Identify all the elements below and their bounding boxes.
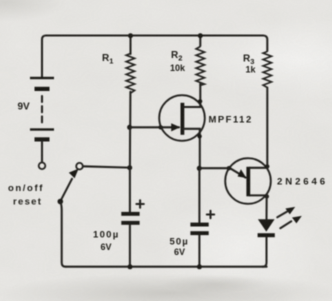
- LED D1 triangle: [258, 219, 275, 231]
- wire rail corner to R3: [263, 36, 267, 52]
- label on/off reset: [8, 183, 44, 208]
- dot source wire at circle: [197, 134, 201, 138]
- transistor Q2 2N2646 envelope: [225, 158, 271, 204]
- wire left vertical from rail to battery: [42, 36, 46, 78]
- wire Q1 drain stub: [183, 85, 200, 107]
- LED D1 cathode bar: [258, 233, 275, 237]
- capacitor C2 50u: [190, 223, 208, 235]
- junction dot R2 top: [198, 33, 203, 38]
- wire R2 bottom to drain: [199, 83, 201, 85]
- wire gate node to FET gate: [130, 126, 179, 128]
- emitter arrowhead: [238, 169, 247, 178]
- dot drain wire at circle: [198, 99, 202, 103]
- label 100u 6V: [93, 230, 120, 253]
- wire Q1 source stub: [183, 129, 200, 168]
- plus sign C2: [207, 211, 214, 218]
- label 50u 6V: [170, 237, 189, 258]
- junction dot gate node: [127, 125, 132, 130]
- dot base2 at circle: [265, 164, 269, 168]
- node A junction dot: [127, 165, 132, 170]
- transistor Q1 MPF112 envelope: [159, 95, 205, 141]
- LED light arrow 2: [280, 216, 302, 228]
- junction dot source node: [197, 166, 202, 171]
- capacitor C1 100u: [121, 212, 139, 225]
- wire rail to R2: [199, 36, 201, 47]
- dot gate wire at circle: [158, 125, 162, 129]
- wire switch pivot down to bottom rail: [60, 202, 65, 267]
- dot emitter wire at circle: [227, 166, 231, 170]
- wire gate node down to node A: [129, 127, 131, 167]
- wire switch throw to node A: [83, 166, 130, 167]
- switch S1 pole terminal: [39, 163, 46, 170]
- wire top rail: [46, 34, 263, 36]
- plus sign C1: [136, 200, 143, 207]
- wire rail to R1: [129, 36, 131, 55]
- wire battery negative to switch terminal: [41, 142, 43, 163]
- resistor R2: [196, 47, 204, 86]
- wire source node to C2: [198, 168, 200, 222]
- battery B1: [30, 77, 54, 142]
- wire C2 to bottom rail: [198, 235, 200, 267]
- resistor R1: [126, 54, 134, 94]
- wire node A down to capacitor C1: [129, 168, 131, 212]
- transistor Q2 base bar: [246, 167, 250, 197]
- switch S1 throw terminal: [76, 163, 83, 170]
- wire C1 to bottom rail: [129, 225, 131, 267]
- junction dot C1 bottom: [128, 264, 133, 269]
- wire Q2 base1 stub: [250, 194, 267, 196]
- resistor R3: [263, 52, 271, 88]
- wire base1 down to LED: [265, 195, 267, 219]
- wire source node to UJT emitter: [199, 168, 245, 177]
- dot base1 at circle: [265, 194, 269, 198]
- wire R1 bottom to gate node: [129, 92, 131, 128]
- wire Q2 base2 stub: [250, 167, 268, 169]
- label R2 10k: [170, 50, 186, 73]
- gate arrowhead: [171, 123, 180, 131]
- wire bottom rail: [66, 266, 267, 268]
- switch S1 arm: [58, 169, 79, 205]
- label R3 1k: [243, 54, 257, 75]
- junction dot C2 bottom: [197, 264, 202, 269]
- junction dot R1 top: [128, 33, 133, 38]
- wire LED to bottom rail corner: [263, 237, 267, 267]
- LED light arrow 1: [277, 207, 295, 217]
- wire R3 bottom to base2: [266, 88, 268, 168]
- transistor Q1 channel bar: [181, 103, 185, 135]
